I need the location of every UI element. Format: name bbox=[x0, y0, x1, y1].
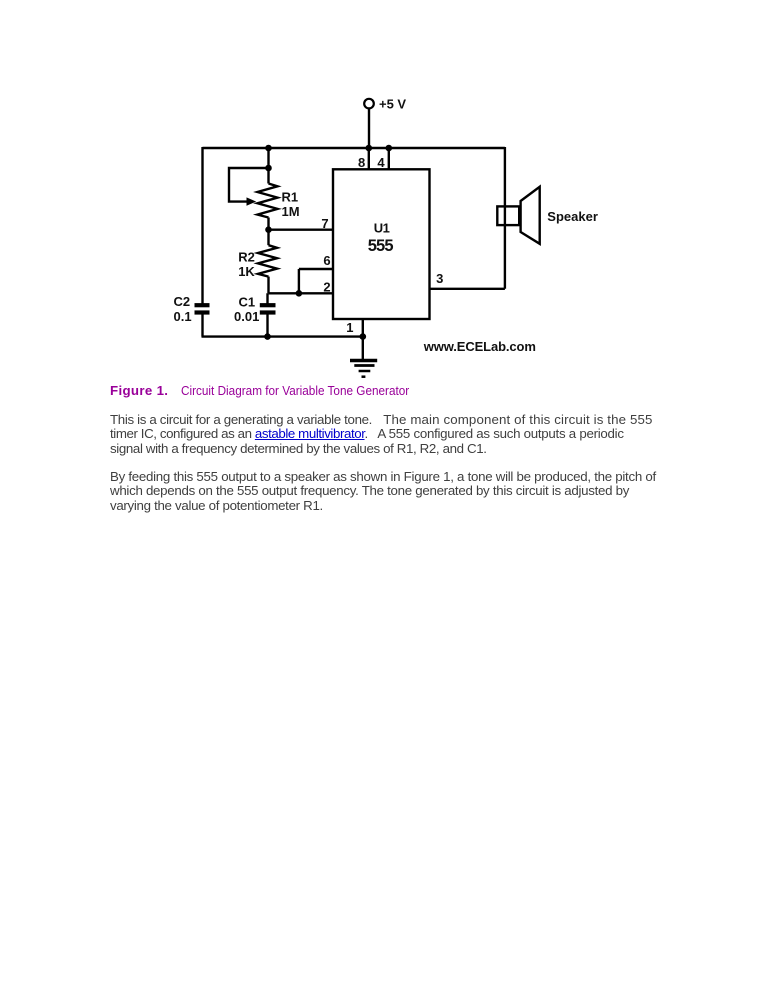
svg-text:1K: 1K bbox=[238, 264, 255, 279]
svg-text:4: 4 bbox=[377, 155, 385, 170]
svg-text:C2: C2 bbox=[174, 294, 191, 309]
svg-text:8: 8 bbox=[358, 155, 365, 170]
svg-text:Speaker: Speaker bbox=[547, 209, 598, 224]
svg-text:6: 6 bbox=[323, 253, 330, 268]
svg-text:1M: 1M bbox=[282, 204, 300, 219]
svg-text:0.01: 0.01 bbox=[234, 309, 259, 324]
svg-text:C1: C1 bbox=[239, 295, 256, 310]
svg-text:R2: R2 bbox=[238, 250, 255, 265]
svg-text:0.1: 0.1 bbox=[174, 309, 192, 324]
svg-text:3: 3 bbox=[436, 271, 443, 286]
svg-text:www.ECELab.com: www.ECELab.com bbox=[423, 339, 536, 354]
svg-text:555: 555 bbox=[368, 237, 394, 255]
svg-text:7: 7 bbox=[321, 216, 328, 231]
svg-text:1: 1 bbox=[346, 320, 353, 335]
svg-text:U1: U1 bbox=[374, 221, 390, 236]
svg-text:R1: R1 bbox=[282, 189, 299, 204]
svg-text:+5 V: +5 V bbox=[379, 97, 406, 112]
svg-text:2: 2 bbox=[323, 280, 330, 295]
